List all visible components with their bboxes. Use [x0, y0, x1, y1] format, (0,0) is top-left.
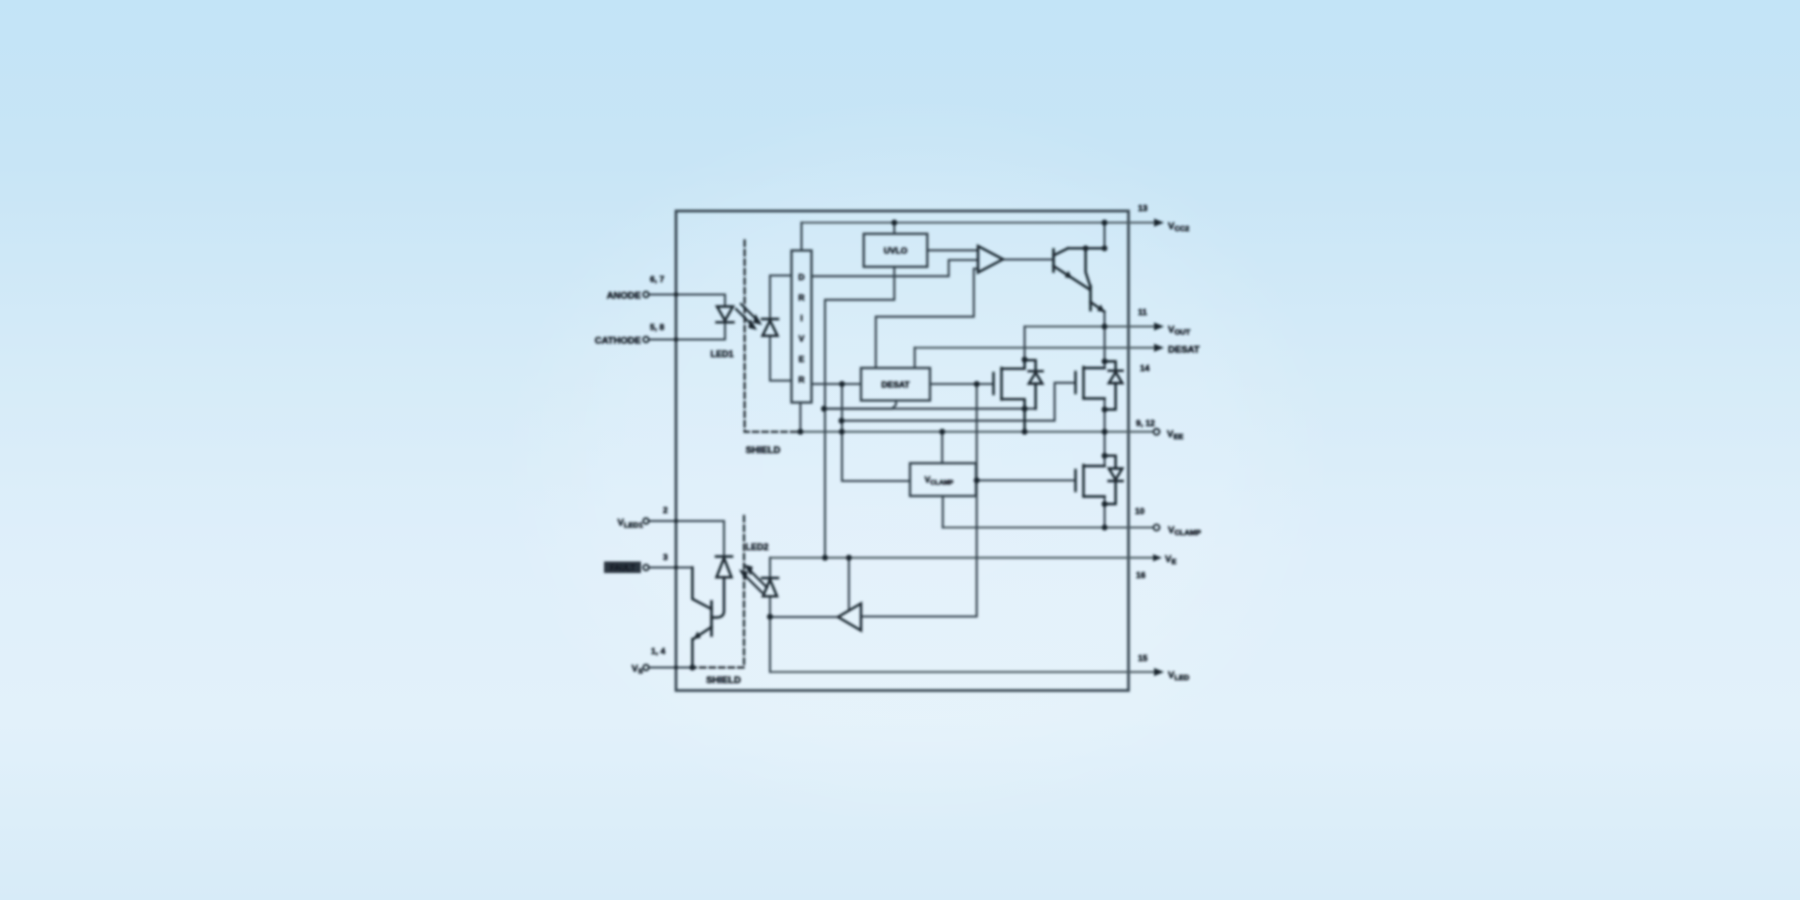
node m1 source/feedback [1022, 406, 1028, 412]
wire M3 source down to VCLAMP pin [1104, 497, 1106, 528]
light arrows LED2 to PD2 [745, 571, 767, 593]
svg-text:SHIELD: SHIELD [746, 445, 781, 456]
transistor Q1 [1052, 250, 1055, 272]
svg-text:V: V [799, 334, 805, 344]
wire driver bottom to vee [799, 403, 801, 432]
node x825/VE [822, 555, 828, 561]
wire VS [649, 666, 693, 668]
wire CATHODE [649, 323, 725, 340]
node m2 gate line [839, 418, 845, 424]
svg-text:2: 2 [663, 505, 668, 515]
wire uvlo top [893, 223, 895, 234]
inverter U4 [838, 604, 861, 631]
wire inverter output to LED2 cathode [770, 616, 838, 618]
node vee m1 [1022, 429, 1028, 435]
wire VOUT [1025, 326, 1155, 328]
wire VE to inverter top [848, 558, 850, 609]
wire M2 source down to VEE [1104, 399, 1106, 432]
pin arrow VCC2 [1154, 219, 1164, 227]
node feedback left [821, 406, 827, 412]
body diode M1 [1025, 360, 1036, 371]
svg-text:SHIELD: SHIELD [706, 675, 741, 686]
mosfet M1 [992, 373, 994, 394]
node uvlo/vcc2 [891, 220, 897, 226]
faint scan page glow [0, 0, 1, 1]
wire FAULT [649, 566, 693, 568]
node line x977: desat out down to inverter [862, 384, 977, 617]
svg-text:14: 14 [1140, 363, 1150, 373]
node m1 drain [1022, 357, 1028, 363]
pin arrow VE [1153, 554, 1162, 561]
wire M2 gate Z [842, 383, 1076, 421]
node anode/box [674, 292, 679, 297]
node inverter top/VE [846, 555, 852, 561]
pin circle ANODE [643, 292, 649, 298]
block DESAT [861, 368, 930, 401]
node vee m2/m3 [1102, 429, 1108, 435]
transistor Q3 fault [710, 602, 713, 636]
wire uvlo bottom to VE node [825, 267, 894, 558]
svg-text:13: 13 [1138, 203, 1148, 213]
svg-text:3: 3 [663, 552, 668, 562]
light arrows LED1 to PD1 [736, 304, 756, 324]
photodiode PD2 [716, 555, 732, 557]
svg-text:11: 11 [1138, 307, 1147, 317]
node desat left [839, 381, 845, 387]
wire photodiode to driver top [770, 276, 792, 319]
node fault/box [674, 566, 678, 570]
svg-text:10: 10 [1135, 506, 1145, 516]
svg-text:R: R [798, 375, 804, 385]
shield top dashed [745, 241, 799, 432]
block text DRIVER [798, 272, 804, 385]
wire VLED1 [649, 521, 724, 557]
wire VCC2 rail [802, 222, 1156, 224]
svg-text:ANODE: ANODE [607, 291, 641, 302]
pin circle FAULT [643, 565, 649, 571]
wire buffer third input from desat node [876, 269, 978, 368]
wire VLED [770, 671, 1155, 673]
pin circle VCLAMP [1154, 525, 1160, 531]
wire photodiode to driver bottom [770, 336, 792, 380]
wire VOUT corner down to M1 drain node [1024, 327, 1026, 360]
node m2 drain [1102, 358, 1108, 364]
svg-text:E: E [799, 354, 805, 364]
wire desat output to M1 gate [930, 383, 993, 385]
shield bottom dashed [694, 516, 744, 668]
node m2 source diode [1102, 407, 1108, 413]
node q3 emitter/vs [689, 665, 695, 671]
node vclamp out [974, 477, 980, 483]
wire driver to buffer lower input [812, 260, 979, 276]
node led2 cathode/inverter out [767, 614, 773, 620]
node m3 source diode [1102, 501, 1108, 507]
pin circle VLED1 [643, 518, 649, 524]
block DRIVER U2 [792, 251, 812, 403]
wire ANODE [649, 295, 725, 307]
wire VCLAMP pin [943, 527, 1153, 529]
pin arrow VOUT [1154, 323, 1164, 331]
node m3/vclamp pin [1102, 525, 1108, 531]
wire VEE rail [800, 431, 1153, 433]
node vee rail start [797, 429, 803, 435]
pin circle VEE [1154, 429, 1160, 435]
wire driver to desat left [812, 383, 862, 385]
svg-text:DESAT: DESAT [1168, 345, 1200, 356]
mosfet M2 [1074, 372, 1076, 393]
wire darlington rail top [1103, 223, 1105, 249]
wire desat pin corner into desat top [914, 348, 916, 368]
svg-text:LED2: LED2 [745, 542, 768, 552]
node vled1/box [674, 519, 678, 523]
wire M2 drain up to VOUT node [1104, 327, 1106, 369]
mosfet M3 [1074, 470, 1076, 491]
pin arrow DESAT [1154, 344, 1164, 352]
pin circle VS [643, 665, 649, 671]
svg-text:UVLO: UVLO [884, 246, 908, 256]
wire driver top to vcc2 [800, 223, 802, 251]
node vs/box [674, 666, 678, 670]
wire M3 drain up to VEE [1104, 432, 1106, 466]
buffer U3 [978, 246, 1003, 273]
transistor Q2 [1089, 286, 1092, 310]
wire uvlo output to buffer [927, 249, 978, 251]
node m3 drain diode [1102, 453, 1108, 459]
wire desat bottom feedback [824, 401, 896, 409]
photodiode PD1 [762, 318, 778, 320]
svg-text:R: R [798, 293, 804, 303]
node darlington/vcc2 [1102, 220, 1108, 226]
svg-text:FAULT: FAULT [610, 564, 635, 573]
svg-text:5, 8: 5, 8 [650, 322, 664, 332]
node line x842: desat-in / m2gate / vee / vclamp-in [842, 384, 910, 481]
wire LED2 cathode down to VLED [769, 597, 771, 673]
svg-text:9, 12: 9, 12 [1136, 418, 1155, 428]
label FAULT [604, 562, 641, 574]
svg-text:6, 7: 6, 7 [650, 274, 664, 284]
svg-text:LED1: LED1 [710, 349, 733, 359]
wire vclamp top to vee [941, 432, 943, 463]
body diode M3 (inverted) [1105, 456, 1116, 469]
wire buffer output to Q1 base [1003, 258, 1053, 260]
node vee x842 [839, 429, 845, 435]
svg-text:1, 4: 1, 4 [651, 646, 665, 656]
pin arrow VLED [1154, 668, 1164, 676]
svg-text:I: I [800, 313, 802, 323]
LED1 [717, 307, 733, 321]
node emitter/vout [1102, 324, 1108, 330]
outer package box [676, 211, 1129, 691]
pin circle CATHODE [643, 337, 649, 343]
svg-text:DESAT: DESAT [881, 380, 910, 390]
svg-text:CATHODE: CATHODE [595, 336, 641, 347]
wire DESAT pin [915, 347, 1155, 349]
LED2 [762, 577, 778, 579]
node q1 collector join [1083, 245, 1089, 251]
node desat out [974, 381, 980, 387]
body diode M2 [1105, 361, 1116, 370]
node cathode/box [674, 337, 679, 342]
block VCLAMP [910, 463, 976, 496]
wire VE [770, 557, 1155, 559]
wire LED2 anode up to VE [769, 558, 771, 578]
svg-text:15: 15 [1138, 653, 1148, 663]
wire desat feedback to M1 source node [824, 408, 1036, 410]
block UVLO [864, 234, 928, 267]
wire Q2 emitter down to VOUT [1103, 312, 1105, 327]
svg-text:16: 16 [1136, 570, 1146, 580]
svg-text:D: D [798, 272, 804, 282]
wire vclamp output to M3 gate [976, 479, 1075, 481]
node vee vclamp [939, 429, 945, 435]
wire vclamp bottom to pin wire [942, 496, 944, 528]
